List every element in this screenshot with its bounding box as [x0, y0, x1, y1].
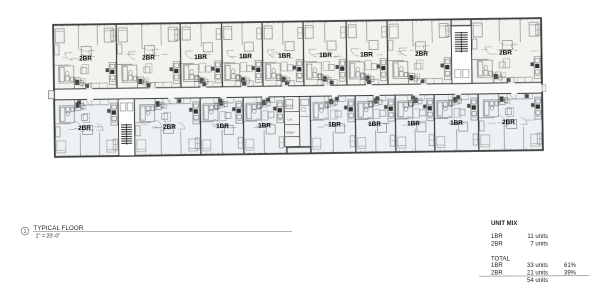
unit bottom row #7 1BR	[395, 95, 434, 153]
svg-text:2BR: 2BR	[491, 241, 503, 247]
unit top row #8 2BR	[387, 19, 451, 85]
corridor south wall	[54, 93, 542, 100]
svg-text:2BR: 2BR	[78, 125, 91, 132]
floor plan building group, slight scan tilt	[53, 18, 543, 158]
svg-text:1BR: 1BR	[319, 52, 332, 59]
svg-text:2BR: 2BR	[491, 270, 503, 276]
demising wall top x=388	[386, 20, 389, 84]
svg-text:ELEV: ELEV	[286, 104, 293, 108]
unit top row #4 1BR	[222, 22, 262, 87]
demising wall top x=222.5	[221, 23, 224, 87]
demising wall top x=472	[470, 19, 473, 83]
door gap bottom unit 4	[262, 96, 268, 98]
upper band fill	[53, 18, 542, 89]
demising wall bottom x=434	[433, 95, 436, 152]
svg-text:54 units: 54 units	[527, 278, 548, 284]
stair S1 (bottom, x118-134)	[118, 99, 135, 156]
svg-text:61%: 61%	[564, 263, 577, 269]
svg-text:1BR: 1BR	[258, 122, 271, 129]
demising wall bottom x=310	[309, 96, 312, 153]
svg-text:1BR: 1BR	[360, 51, 373, 58]
unit top row #3 1BR	[180, 22, 221, 87]
demising wall bottom x=200	[199, 98, 202, 155]
svg-text:11 units: 11 units	[527, 234, 548, 240]
svg-text:2BR: 2BR	[502, 119, 515, 126]
demising wall bottom x=134	[133, 99, 136, 156]
demising wall bottom x=395	[394, 95, 397, 152]
title underline	[33, 230, 292, 232]
building outline	[53, 18, 543, 157]
unit top row #2 2BR	[116, 23, 180, 89]
svg-text:2BR: 2BR	[499, 50, 512, 57]
door gap top unit 9	[508, 82, 514, 84]
svg-text:TYPICAL FLOOR: TYPICAL FLOOR	[34, 225, 84, 232]
door gap top unit 6	[324, 84, 330, 86]
corridor north wall	[54, 82, 542, 89]
demising wall top x=347	[345, 21, 348, 85]
unit top row #9 2BR	[471, 18, 541, 84]
unit bottom row #2 2BR	[134, 98, 200, 156]
svg-text:TOTAL: TOTAL	[491, 256, 510, 262]
demising wall top x=263	[261, 22, 264, 86]
svg-text:1BR: 1BR	[278, 53, 291, 60]
svg-text:1BR: 1BR	[194, 54, 207, 61]
door gap top unit 7	[366, 84, 372, 86]
svg-text:1" = 20'-0": 1" = 20'-0"	[36, 233, 61, 239]
door gap bottom unit 1	[87, 98, 93, 100]
unit mix table	[479, 221, 589, 284]
demising wall bottom x=478	[477, 94, 480, 151]
svg-text:1: 1	[24, 229, 27, 235]
svg-text:2BR: 2BR	[142, 54, 155, 61]
unit top row #5 1BR	[262, 21, 303, 86]
unit top row #6 1BR	[303, 20, 346, 85]
demising wall bottom x=243	[242, 97, 245, 154]
door gap top unit 3	[200, 86, 206, 88]
corridor fill	[54, 82, 542, 100]
unit bottom row #8 1BR	[434, 94, 478, 152]
unit top row #1 2BR	[53, 24, 116, 90]
svg-text:UNIT MIX: UNIT MIX	[491, 221, 517, 227]
structural walls, stairs, core and labels (sharper layer)	[48, 18, 547, 157]
demising wall top x=304	[302, 21, 305, 85]
door gap bottom unit 2	[168, 97, 174, 99]
svg-text:33 units: 33 units	[527, 263, 548, 269]
svg-text:2BR: 2BR	[163, 124, 176, 131]
service core: ELEV / UTL / TRASH	[284, 96, 300, 146]
lower band fill	[54, 93, 543, 157]
totals rule	[479, 275, 589, 278]
corridor west exit stoop	[49, 91, 55, 99]
svg-text:TRASH: TRASH	[286, 132, 295, 135]
entry alcove fixtures x299-310	[301, 99, 309, 105]
door gap bottom unit 6	[374, 94, 380, 96]
unit bottom row #9 2BR	[478, 93, 542, 151]
door gap bottom unit 9	[511, 92, 517, 94]
unit bottom row #1 2BR	[54, 99, 118, 157]
sheet title circled index 1	[21, 227, 29, 235]
svg-text:1BR: 1BR	[328, 121, 341, 128]
door gap top unit 5	[282, 85, 288, 87]
demising wall bottom x=355	[354, 96, 357, 153]
demising wall top x=117	[115, 24, 118, 88]
door gap top unit 4	[241, 86, 247, 88]
svg-text:1BR: 1BR	[239, 53, 252, 60]
demising wall top x=181	[179, 23, 182, 87]
svg-text:1BR: 1BR	[491, 234, 503, 240]
svg-text:1BR: 1BR	[407, 120, 420, 127]
svg-text:1BR: 1BR	[368, 121, 381, 128]
unit bottom row #4 1BR	[243, 97, 284, 155]
svg-text:1BR: 1BR	[216, 123, 229, 130]
svg-text:1BR: 1BR	[491, 263, 503, 269]
door gap bottom unit 3	[220, 97, 226, 99]
bottom edge recess at service core	[286, 147, 288, 153]
unit bottom row #5 1BR	[310, 96, 355, 154]
svg-text:2BR: 2BR	[79, 55, 92, 62]
svg-text:7 units: 7 units	[530, 241, 548, 247]
door gap bottom unit 7	[413, 94, 419, 96]
unit bottom row #3 1BR	[200, 97, 243, 155]
svg-text:UTL: UTL	[287, 118, 293, 122]
corridor east exit	[541, 84, 543, 91]
unit bottom row #6 1BR	[355, 95, 395, 153]
door gap top unit 1	[86, 88, 92, 90]
stair S2 (top, between 2BR units)	[451, 19, 472, 84]
svg-text:2BR: 2BR	[415, 51, 428, 58]
door gap bottom unit 8	[455, 93, 461, 95]
door gap top unit 8	[421, 83, 427, 85]
door gap top unit 2	[150, 87, 156, 89]
unit top row #7 1BR	[346, 20, 387, 85]
door gap bottom unit 5	[332, 95, 338, 97]
svg-text:1BR: 1BR	[450, 120, 463, 127]
